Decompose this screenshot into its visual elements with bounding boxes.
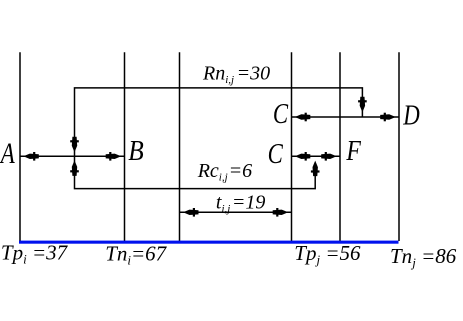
svg-text:C: C xyxy=(268,139,283,170)
svg-text:A: A xyxy=(0,138,15,170)
svg-text:Tpi =37: Tpi =37 xyxy=(1,241,69,267)
svg-text:F: F xyxy=(346,136,362,167)
svg-text:ti,j=19: ti,j=19 xyxy=(216,192,265,216)
svg-text:Tni=67: Tni=67 xyxy=(105,241,167,267)
svg-text:Rci,j=6: Rci,j=6 xyxy=(197,160,252,184)
svg-text:D: D xyxy=(402,101,419,132)
svg-text:Rni,j=30: Rni,j=30 xyxy=(202,62,270,86)
svg-text:Tpj =56: Tpj =56 xyxy=(294,241,361,267)
svg-text:Tnj =86: Tnj =86 xyxy=(390,244,457,270)
svg-text:C: C xyxy=(273,99,288,130)
svg-text:B: B xyxy=(128,136,144,167)
